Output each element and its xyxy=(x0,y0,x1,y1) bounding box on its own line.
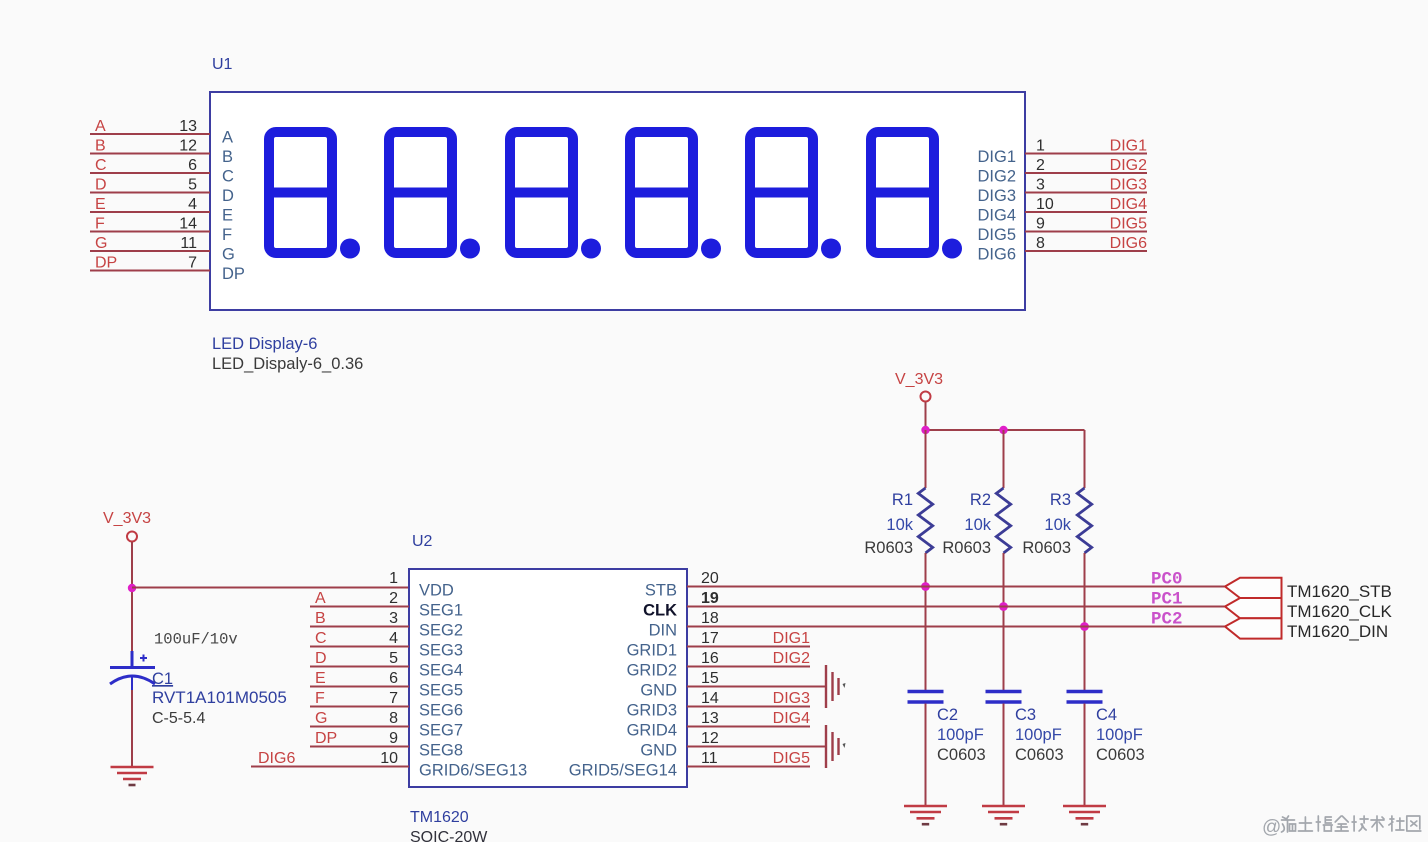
wire rail down to resistor R1 xyxy=(925,430,927,488)
svg-text:CLK: CLK xyxy=(643,602,677,620)
junction dot R3/C4 on signal line xyxy=(1080,622,1089,631)
wire junction down to capacitor C4 xyxy=(1084,627,1086,692)
svg-text:100uF/10v: 100uF/10v xyxy=(154,631,238,649)
svg-text:DIG5: DIG5 xyxy=(1110,216,1147,233)
junction dot rail/R2 xyxy=(999,426,1007,434)
wire capacitor C3 to ground xyxy=(1003,704,1005,807)
U1 seven-segment digit 2 showing 8 with decimal point xyxy=(387,132,480,259)
wire V_3V3 stub to rail xyxy=(925,402,927,430)
svg-text:G: G xyxy=(222,246,235,264)
svg-text:C-5-5.4: C-5-5.4 xyxy=(152,710,205,727)
svg-text:G: G xyxy=(315,710,327,727)
hierarchical connector TM1620_STB xyxy=(1225,578,1282,598)
wire net F to U1 left pin 14 xyxy=(90,231,210,233)
svg-text:DP: DP xyxy=(222,265,245,283)
wire net B to U2 pin 3 xyxy=(310,626,409,628)
svg-text:10k: 10k xyxy=(964,516,991,534)
svg-text:C3: C3 xyxy=(1015,706,1036,724)
svg-text:LED_Dispaly-6_0.36: LED_Dispaly-6_0.36 xyxy=(212,355,363,373)
svg-text:TM1620_CLK: TM1620_CLK xyxy=(1287,602,1393,621)
svg-text:DIG5: DIG5 xyxy=(773,750,810,767)
svg-text:DIG4: DIG4 xyxy=(977,207,1016,225)
watermark CJK glyph strokes xyxy=(1282,816,1421,832)
wire net DIG1 from U2 pin 17 xyxy=(687,646,810,648)
wire net DIG4 from U2 pin 13 xyxy=(687,726,810,728)
junction dot R1/C2 on signal line xyxy=(921,582,930,591)
wire junction down to capacitor C2 xyxy=(925,587,927,692)
wire net CLK from U2 to connector xyxy=(687,606,1225,608)
wire net F to U2 pin 7 xyxy=(310,706,409,708)
svg-text:B: B xyxy=(315,610,326,627)
svg-text:1: 1 xyxy=(1036,138,1045,155)
svg-text:RVT1A101M0505: RVT1A101M0505 xyxy=(152,688,287,707)
svg-text:DIG4: DIG4 xyxy=(773,710,810,727)
svg-text:DIG3: DIG3 xyxy=(1110,177,1147,194)
wire net G to U2 pin 8 xyxy=(310,726,409,728)
svg-text:D: D xyxy=(95,177,107,194)
svg-text:100pF: 100pF xyxy=(1015,726,1062,744)
svg-text:SEG3: SEG3 xyxy=(419,642,463,660)
svg-text:PC2: PC2 xyxy=(1151,610,1183,630)
wire R3 bottom to signal junction xyxy=(1084,553,1086,627)
svg-text:10: 10 xyxy=(380,750,398,767)
svg-text:C0603: C0603 xyxy=(1096,746,1145,764)
svg-text:13: 13 xyxy=(701,710,719,727)
hierarchical connector TM1620_CLK xyxy=(1225,598,1282,618)
svg-text:8: 8 xyxy=(1036,235,1045,252)
svg-text:GRID6/SEG13: GRID6/SEG13 xyxy=(419,762,527,780)
svg-text:11: 11 xyxy=(701,750,718,767)
svg-text:R2: R2 xyxy=(970,491,991,509)
svg-text:DIG6: DIG6 xyxy=(1110,235,1147,252)
svg-text:2: 2 xyxy=(389,590,398,607)
svg-text:TM1620: TM1620 xyxy=(410,809,469,826)
svg-text:SEG4: SEG4 xyxy=(419,662,463,680)
wire net DIG2 from U2 pin 16 xyxy=(687,666,810,668)
svg-text:GRID1: GRID1 xyxy=(627,642,677,660)
svg-text:SEG2: SEG2 xyxy=(419,622,463,640)
svg-text:GRID5/SEG14: GRID5/SEG14 xyxy=(569,762,677,780)
svg-text:C0603: C0603 xyxy=(937,746,986,764)
svg-text:R0603: R0603 xyxy=(1022,539,1071,557)
svg-text:SEG1: SEG1 xyxy=(419,602,463,620)
wire net DIG4 from U1 right pin 10 xyxy=(1025,211,1147,213)
LED display U1 body xyxy=(210,92,1025,310)
wire rail down to resistor R2 xyxy=(1003,430,1005,488)
wire capacitor C2 to ground xyxy=(925,704,927,807)
svg-text:7: 7 xyxy=(389,690,398,707)
svg-text:F: F xyxy=(95,216,105,233)
svg-text:5: 5 xyxy=(188,177,197,194)
svg-text:DIG1: DIG1 xyxy=(977,148,1016,166)
svg-text:D: D xyxy=(315,650,327,667)
wire net DIG5 from U2 pin 11 xyxy=(687,766,810,768)
wire net STB from U2 to connector xyxy=(687,586,1225,588)
svg-text:3: 3 xyxy=(389,610,398,627)
svg-text:11: 11 xyxy=(180,235,197,252)
wire net A to U2 pin 2 xyxy=(310,606,409,608)
capacitor C1 polarized symbol xyxy=(110,651,155,692)
wire net DIG3 from U1 right pin 3 xyxy=(1025,192,1147,194)
ground flag at U2 GND pin (y=746.5) xyxy=(826,725,846,768)
resistor R2 10k zigzag xyxy=(996,488,1010,553)
svg-text:C2: C2 xyxy=(937,706,958,724)
wire net DP to U2 pin 9 xyxy=(310,746,409,748)
svg-text:B: B xyxy=(222,148,233,166)
svg-text:20: 20 xyxy=(701,570,719,587)
wire U2 pin 15 to GND flag xyxy=(687,686,826,688)
svg-text:3: 3 xyxy=(1036,177,1045,194)
resistor R1 10k zigzag xyxy=(918,488,932,553)
svg-text:10k: 10k xyxy=(1044,516,1071,534)
svg-text:PC1: PC1 xyxy=(1151,590,1183,610)
wire net DIG2 from U1 right pin 2 xyxy=(1025,172,1147,174)
svg-text:14: 14 xyxy=(701,690,719,707)
svg-text:C4: C4 xyxy=(1096,706,1117,724)
svg-text:15: 15 xyxy=(701,670,719,687)
svg-text:VDD: VDD xyxy=(419,582,454,600)
svg-text:V_3V3: V_3V3 xyxy=(895,371,943,388)
wire junction to C1 top xyxy=(131,588,133,666)
svg-text:DIG2: DIG2 xyxy=(773,650,810,667)
svg-text:C1: C1 xyxy=(152,670,173,688)
svg-text:B: B xyxy=(95,138,106,155)
svg-text:4: 4 xyxy=(389,630,398,647)
svg-text:@: @ xyxy=(1262,817,1281,838)
svg-text:TM1620_DIN: TM1620_DIN xyxy=(1287,622,1388,641)
resistor R3 10k zigzag xyxy=(1077,488,1091,553)
IC U2 body xyxy=(409,569,687,787)
svg-text:DP: DP xyxy=(315,730,337,747)
wire net C to U1 left pin 6 xyxy=(90,172,210,174)
wire net DP to U1 left pin 7 xyxy=(90,270,210,272)
wire net DIG6 from U1 right pin 8 xyxy=(1025,250,1147,252)
wire net DIG5 from U1 right pin 9 xyxy=(1025,231,1147,233)
wire net B to U1 left pin 12 xyxy=(90,153,210,155)
svg-text:R1: R1 xyxy=(892,491,913,509)
wire V_3V3 down to junction xyxy=(131,542,133,588)
svg-text:DIG6: DIG6 xyxy=(258,750,295,767)
ground symbol below C2 xyxy=(904,806,947,824)
svg-text:16: 16 xyxy=(701,650,719,667)
svg-text:A: A xyxy=(95,118,106,135)
svg-text:DIG4: DIG4 xyxy=(1110,196,1147,213)
svg-text:SEG5: SEG5 xyxy=(419,682,463,700)
capacitor C3 symbol xyxy=(986,692,1022,703)
wire VDD net from junction to U2 pin 1 xyxy=(132,587,409,589)
svg-text:9: 9 xyxy=(1036,216,1045,233)
junction dot R2/C3 on signal line xyxy=(999,602,1008,611)
svg-text:SEG8: SEG8 xyxy=(419,742,463,760)
U1 seven-segment digit 3 showing 8 with decimal point xyxy=(508,132,601,259)
svg-text:LED Display-6: LED Display-6 xyxy=(212,335,317,353)
svg-text:8: 8 xyxy=(389,710,398,727)
svg-text:DIG1: DIG1 xyxy=(773,630,810,647)
ground symbol below C4 xyxy=(1063,806,1106,824)
wire net DIG1 from U1 right pin 1 xyxy=(1025,153,1147,155)
wire R1 bottom to signal junction xyxy=(925,553,927,587)
U1 seven-segment digit 6 showing 8 with decimal point xyxy=(869,132,962,259)
svg-text:DP: DP xyxy=(95,255,117,272)
wire net G to U1 left pin 11 xyxy=(90,250,210,252)
svg-text:12: 12 xyxy=(701,730,719,747)
svg-text:DIG2: DIG2 xyxy=(977,168,1016,186)
svg-text:C: C xyxy=(315,630,327,647)
wire junction down to capacitor C3 xyxy=(1003,607,1005,692)
svg-text:GND: GND xyxy=(640,682,677,700)
wire net D to U1 left pin 5 xyxy=(90,192,210,194)
svg-text:SEG6: SEG6 xyxy=(419,702,463,720)
svg-text:10: 10 xyxy=(1036,196,1054,213)
svg-text:SOIC-20W: SOIC-20W xyxy=(410,829,488,842)
svg-text:GRID4: GRID4 xyxy=(627,722,677,740)
ground symbol below C1 xyxy=(111,767,154,785)
wire net E to U1 left pin 4 xyxy=(90,211,210,213)
wire net E to U2 pin 6 xyxy=(310,686,409,688)
svg-text:13: 13 xyxy=(179,118,197,135)
junction dot rail/R1 xyxy=(921,426,929,434)
svg-text:5: 5 xyxy=(389,650,398,667)
wire rail down to resistor R3 xyxy=(1084,430,1086,488)
power symbol V_3V3 (left) xyxy=(103,510,151,542)
wire R2 bottom to signal junction xyxy=(1003,553,1005,607)
svg-text:E: E xyxy=(95,196,106,213)
svg-text:100pF: 100pF xyxy=(1096,726,1143,744)
svg-text:DIN: DIN xyxy=(649,622,677,640)
wire net DIG6 to U2 pin 10 xyxy=(251,766,409,768)
wire net D to U2 pin 5 xyxy=(310,666,409,668)
svg-text:E: E xyxy=(315,670,326,687)
svg-text:C: C xyxy=(222,168,234,186)
svg-text:6: 6 xyxy=(188,157,197,174)
svg-text:6: 6 xyxy=(389,670,398,687)
svg-text:1: 1 xyxy=(389,570,398,587)
svg-text:100pF: 100pF xyxy=(937,726,984,744)
wire U2 pin 12 to GND flag xyxy=(687,746,826,748)
svg-text:DIG5: DIG5 xyxy=(977,226,1016,244)
svg-text:17: 17 xyxy=(701,630,719,647)
U1 seven-segment digit 5 showing 8 with decimal point xyxy=(748,132,841,259)
svg-text:GND: GND xyxy=(640,742,677,760)
svg-text:2: 2 xyxy=(1036,157,1045,174)
svg-text:DIG1: DIG1 xyxy=(1110,138,1147,155)
ground symbol below C3 xyxy=(982,806,1025,824)
hierarchical connector TM1620_DIN xyxy=(1225,618,1282,638)
svg-text:DIG6: DIG6 xyxy=(977,246,1016,264)
svg-text:V_3V3: V_3V3 xyxy=(103,510,151,527)
wire capacitor C4 to ground xyxy=(1084,704,1086,807)
junction dot at C1 / VDD node xyxy=(128,584,136,592)
svg-text:TM1620_STB: TM1620_STB xyxy=(1287,582,1392,601)
wire net DIN from U2 to connector xyxy=(687,626,1225,628)
svg-text:12: 12 xyxy=(179,138,197,155)
svg-text:10k: 10k xyxy=(886,516,913,534)
svg-text:C: C xyxy=(95,157,107,174)
svg-text:R3: R3 xyxy=(1050,491,1071,509)
svg-text:C0603: C0603 xyxy=(1015,746,1064,764)
wire net C to U2 pin 4 xyxy=(310,646,409,648)
svg-text:F: F xyxy=(315,690,325,707)
svg-text:14: 14 xyxy=(179,216,197,233)
svg-text:A: A xyxy=(222,129,233,147)
svg-text:SEG7: SEG7 xyxy=(419,722,463,740)
U1 seven-segment digit 1 showing 8 with decimal point xyxy=(267,132,360,259)
capacitor C4 symbol xyxy=(1067,692,1103,703)
svg-text:R0603: R0603 xyxy=(942,539,991,557)
svg-text:U1: U1 xyxy=(212,56,233,73)
svg-text:F: F xyxy=(222,226,232,244)
svg-text:G: G xyxy=(95,235,107,252)
capacitor C2 symbol xyxy=(908,692,944,703)
svg-text:R0603: R0603 xyxy=(864,539,913,557)
wire V_3V3 rail across R1 R2 R3 xyxy=(926,429,1085,431)
svg-text:GRID3: GRID3 xyxy=(627,702,677,720)
svg-text:A: A xyxy=(315,590,326,607)
svg-text:4: 4 xyxy=(188,196,197,213)
svg-text:19: 19 xyxy=(701,590,719,607)
svg-text:PC0: PC0 xyxy=(1151,570,1183,590)
svg-text:DIG2: DIG2 xyxy=(1110,157,1147,174)
ground flag at U2 GND pin (y=686.5) xyxy=(826,665,846,708)
svg-text:DIG3: DIG3 xyxy=(773,690,810,707)
svg-text:DIG3: DIG3 xyxy=(977,187,1016,205)
svg-text:GRID2: GRID2 xyxy=(627,662,677,680)
svg-text:STB: STB xyxy=(645,582,677,600)
wire net A to U1 left pin 13 xyxy=(90,133,210,135)
svg-text:7: 7 xyxy=(188,255,197,272)
svg-text:E: E xyxy=(222,207,233,225)
wire net DIG3 from U2 pin 14 xyxy=(687,706,810,708)
svg-text:U2: U2 xyxy=(412,533,433,550)
U1 seven-segment digit 4 showing 8 with decimal point xyxy=(628,132,721,259)
svg-text:18: 18 xyxy=(701,610,719,627)
svg-text:D: D xyxy=(222,187,234,205)
power symbol V_3V3 (right) xyxy=(895,371,943,402)
wire C1 bottom to ground xyxy=(131,690,133,767)
svg-text:9: 9 xyxy=(389,730,398,747)
